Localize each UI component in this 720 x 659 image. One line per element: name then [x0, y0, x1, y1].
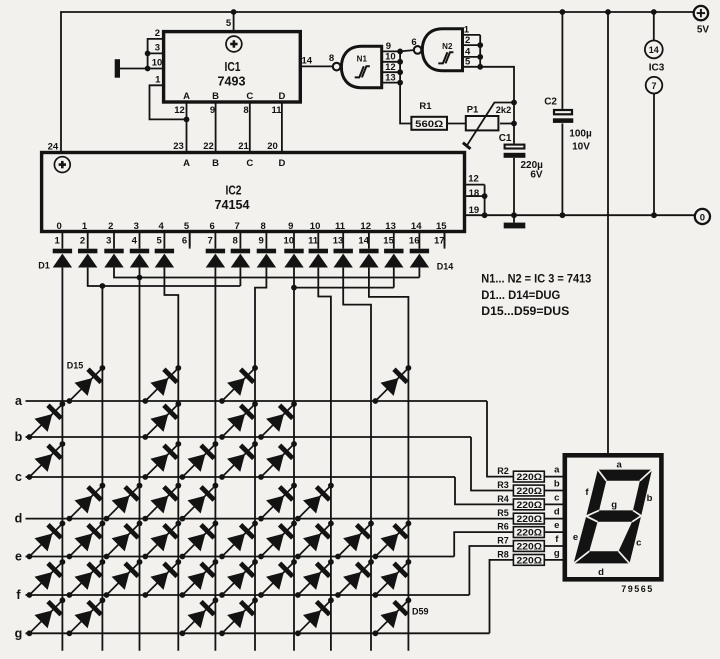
diode D24 row c column 4	[137, 435, 187, 485]
svg-text:N1: N1	[357, 54, 368, 63]
svg-text:d: d	[15, 512, 23, 526]
svg-text:12: 12	[468, 174, 479, 185]
svg-text:3: 3	[134, 221, 139, 232]
svg-text:D: D	[278, 91, 285, 102]
svg-text:e: e	[573, 532, 578, 543]
svg-text:IC3: IC3	[649, 62, 665, 73]
svg-text:8: 8	[329, 53, 334, 64]
node rail A to column 3	[137, 275, 143, 281]
IC2 74154 decoder	[42, 153, 465, 232]
svg-text:11: 11	[271, 105, 282, 116]
svg-text:d: d	[554, 507, 560, 518]
wire output 10 jog to column 8	[318, 268, 331, 651]
svg-text:R4: R4	[497, 494, 509, 504]
svg-text:8: 8	[233, 235, 238, 246]
diode D22 row b column 7	[252, 395, 302, 445]
svg-text:19: 19	[469, 205, 480, 216]
diode D19 row b column 1	[21, 395, 71, 445]
diode D52 row f column 9	[329, 553, 379, 603]
svg-text:3: 3	[106, 235, 111, 246]
svg-text:15: 15	[436, 221, 447, 232]
diode D58 row g column 8	[289, 592, 339, 642]
wire output 7 down to rail	[239, 268, 241, 286]
svg-text:R1: R1	[419, 101, 432, 112]
svg-text:11: 11	[335, 221, 346, 232]
svg-text:2: 2	[108, 221, 113, 232]
svg-text:b: b	[15, 430, 23, 444]
wire R1 to P1	[447, 123, 466, 125]
svg-text:220Ω: 220Ω	[517, 556, 543, 567]
svg-text:D14: D14	[437, 261, 454, 271]
wire row a	[26, 400, 488, 402]
svg-text:220Ω: 220Ω	[517, 528, 543, 539]
segment separator gaps	[574, 470, 652, 564]
diode D7 on output 7	[231, 249, 250, 268]
diode D56 row g column 5	[174, 592, 224, 642]
resistor R3 220 ohm segment b	[513, 485, 544, 497]
wire P1 to C1 node	[500, 123, 514, 125]
wire IC3 pin 7 to 0V line	[653, 94, 655, 216]
svg-text:R3: R3	[497, 480, 509, 490]
diode D5 on output 4	[155, 249, 174, 268]
svg-text:5: 5	[157, 235, 163, 246]
node IC3 to 0V	[651, 212, 657, 218]
svg-text:79565: 79565	[621, 584, 654, 594]
svg-text:D15: D15	[67, 361, 84, 371]
svg-text:C1: C1	[499, 133, 512, 144]
diode D2 on output 1	[78, 249, 97, 268]
diode D18 row a column 10	[367, 359, 417, 409]
diode D28 row d column 2	[61, 477, 111, 527]
N2 output bubble pin 6	[414, 46, 422, 54]
wire output 6 to column 5	[214, 268, 216, 651]
svg-text:6: 6	[182, 235, 187, 246]
diode D48 row f column 5	[174, 553, 224, 603]
svg-text:6: 6	[411, 37, 416, 48]
svg-text:e: e	[15, 550, 22, 564]
node pin10 junction	[145, 66, 151, 72]
wire output 4 jog to column 4	[164, 268, 178, 651]
diode D6 on output 6	[206, 249, 225, 268]
svg-text:6: 6	[210, 221, 215, 232]
svg-text:220Ω: 220Ω	[517, 472, 543, 483]
svg-text:0: 0	[700, 212, 705, 223]
diode D25 row c column 5	[174, 435, 224, 485]
node P1 wiper junction	[511, 100, 517, 106]
svg-text:a: a	[554, 465, 560, 476]
IC2 output 15 stub (unused)	[444, 232, 446, 247]
IC2 pin 19 stub to 0V	[465, 214, 485, 216]
wire linking N2 inputs	[479, 35, 481, 67]
svg-text:5V: 5V	[697, 25, 710, 36]
svg-text:4: 4	[132, 235, 138, 246]
svg-text:12: 12	[360, 221, 371, 232]
svg-text:7493: 7493	[218, 74, 246, 89]
wire row a to resistor	[487, 401, 513, 477]
svg-text:2: 2	[465, 35, 470, 46]
svg-text:R7: R7	[497, 535, 509, 545]
svg-text:B: B	[212, 91, 219, 102]
diode D21 row b column 6	[213, 395, 263, 445]
node pin1 to A junction	[184, 117, 190, 123]
svg-text:12: 12	[385, 62, 396, 73]
diode D47 row f column 4	[137, 553, 187, 603]
svg-text:2: 2	[155, 28, 160, 39]
wire rail down-left to IC2 pin 24	[60, 11, 62, 152]
diode D30 row d column 4	[137, 477, 187, 527]
svg-text:14: 14	[411, 221, 422, 232]
diode D12 on output 12	[359, 249, 378, 268]
op N1 NAND Schmitt gate	[341, 46, 381, 87]
wire output 2 jog to rail A	[114, 268, 419, 278]
svg-text:0: 0	[57, 221, 62, 232]
svg-text:a: a	[15, 394, 23, 408]
wire output 14 down to rail A	[418, 268, 420, 278]
diode D44 row f column 1	[21, 553, 71, 603]
svg-text:100µ: 100µ	[569, 128, 592, 139]
wire row b	[26, 436, 472, 438]
svg-text:10: 10	[385, 52, 396, 63]
svg-text:10V: 10V	[572, 141, 590, 152]
svg-text:1: 1	[55, 235, 61, 246]
svg-text:IC2: IC2	[226, 183, 242, 198]
display 7-segment 79565	[565, 455, 662, 579]
diode D45 row f column 2	[61, 553, 111, 603]
svg-text:c: c	[636, 537, 641, 548]
diode D34 row e column 1	[21, 515, 71, 565]
node rail to IC1 pin 5	[231, 9, 237, 15]
svg-text:220Ω: 220Ω	[517, 500, 543, 511]
svg-text:14: 14	[649, 45, 659, 55]
node pin3 junction	[145, 51, 151, 57]
node rail to display	[605, 9, 611, 15]
diode D46 row f column 3	[98, 553, 148, 603]
svg-text:7: 7	[651, 81, 656, 91]
svg-text:IC1: IC1	[225, 59, 241, 74]
terminal +5V	[694, 6, 708, 20]
svg-text:c: c	[15, 470, 22, 484]
wire +5V top supply rail	[61, 11, 693, 13]
diode D23 row c column 1	[21, 435, 71, 485]
wire C1 node to ground bar	[513, 215, 515, 222]
svg-text:2k2: 2k2	[496, 105, 512, 116]
svg-text:D1: D1	[38, 260, 50, 270]
wire row g to resistor	[490, 560, 514, 633]
diode D55 row g column 2	[61, 592, 111, 642]
svg-text:21: 21	[238, 141, 249, 152]
svg-text:9: 9	[288, 221, 293, 232]
svg-text:R2: R2	[497, 466, 509, 476]
diode D38 row e column 5	[174, 515, 224, 565]
svg-text:10: 10	[310, 221, 321, 232]
svg-text:5: 5	[465, 57, 471, 68]
wire R2 to display segment a	[544, 476, 562, 478]
node C1 ground junction	[511, 212, 517, 218]
svg-text:b: b	[554, 479, 560, 490]
wire row e to resistor	[454, 532, 513, 556]
svg-text:c: c	[554, 493, 559, 504]
wire output 3 to column 3	[139, 268, 141, 651]
diode D50 row f column 7	[252, 553, 302, 603]
svg-text:220Ω: 220Ω	[517, 514, 543, 525]
node column 7 rail to output 13	[291, 285, 297, 291]
svg-text:C2: C2	[544, 97, 557, 108]
diode D27 row c column 7	[252, 435, 302, 485]
wire output 0 to column 1	[61, 268, 63, 651]
wire rail down to C2	[561, 12, 563, 109]
svg-text:5: 5	[226, 18, 232, 29]
diode D41 row e column 8	[289, 515, 339, 565]
svg-text:B: B	[212, 158, 219, 169]
capacitor C1 220u 6V	[504, 145, 526, 158]
svg-text:A: A	[183, 91, 190, 102]
wire row g	[26, 632, 490, 634]
svg-text:2: 2	[80, 235, 85, 246]
diode D3 on output 2	[104, 249, 123, 268]
node rail to C2	[560, 9, 566, 15]
svg-text:9: 9	[259, 235, 264, 246]
node P1 C1 junction	[511, 121, 517, 127]
diode D29 row d column 3	[98, 477, 148, 527]
svg-text:a: a	[617, 460, 623, 471]
svg-text:D15...D59=DUS: D15...D59=DUS	[481, 304, 569, 318]
terminal 0V	[695, 209, 710, 224]
wire N2 inputs to C1 node	[480, 67, 514, 124]
diode D42 row e column 9	[329, 515, 379, 565]
svg-text:g: g	[611, 500, 617, 511]
resistor R7 220 ohm segment f	[513, 541, 544, 553]
wire row f	[26, 594, 470, 596]
svg-text:560Ω: 560Ω	[415, 119, 443, 130]
svg-text:8: 8	[243, 105, 248, 116]
diode D35 row e column 2	[61, 515, 111, 565]
IC2 enable pin 18 stub	[465, 195, 485, 197]
IC1 pin 14 wire to N1 output	[300, 65, 332, 67]
diode D53 row f column 10	[367, 553, 417, 603]
svg-text:C: C	[246, 158, 253, 169]
diode D40 row e column 7	[252, 515, 302, 565]
svg-text:13: 13	[385, 72, 396, 83]
diode D31 row d column 5	[174, 477, 224, 527]
wire row c to resistor	[455, 477, 513, 504]
diode D49 row f column 6	[213, 553, 263, 603]
wire output 8 jog to column 6	[255, 268, 266, 651]
svg-text:A: A	[183, 158, 190, 169]
IC3 ground pin 7 circle	[646, 77, 663, 94]
diode D16 row a column 4	[137, 359, 187, 409]
svg-text:220Ω: 220Ω	[517, 542, 543, 553]
IC1 pin 2 stub	[148, 38, 164, 40]
svg-text:e: e	[554, 520, 559, 531]
svg-text:220Ω: 220Ω	[517, 486, 543, 497]
svg-text:10: 10	[284, 235, 295, 246]
diode D17 row a column 6	[213, 359, 263, 409]
diode D20 row b column 4	[137, 395, 187, 445]
wire row c	[26, 476, 456, 478]
svg-text:R8: R8	[497, 549, 509, 559]
svg-text:d: d	[598, 567, 604, 578]
diode D11 on output 11	[334, 249, 353, 268]
IC1 pin 3 stub	[148, 52, 164, 54]
wire IC1 pin 5 to rail	[233, 12, 235, 32]
op N2 NAND Schmitt gate	[422, 29, 462, 71]
potentiometer P1 2k2	[463, 103, 514, 149]
diode D1 on output 0	[53, 249, 72, 268]
wire R6 to display segment e	[544, 531, 562, 533]
diode D59 row g column 10	[367, 592, 417, 642]
resistor R1 560 ohm	[411, 117, 447, 130]
wire R5 to display segment d	[544, 518, 562, 520]
svg-text:17: 17	[434, 235, 445, 246]
wire C2 to 0V line	[561, 123, 563, 215]
IC1 7493 counter	[164, 32, 301, 102]
diode D8 on output 8	[257, 249, 276, 268]
wire 0V line	[485, 214, 695, 216]
N1 input stubs pins 9,10,12,13	[382, 50, 400, 52]
svg-text:N2: N2	[442, 42, 453, 51]
svg-text:R5: R5	[497, 508, 509, 518]
IC3 supply pin 14 circle	[653, 12, 655, 41]
svg-text:20: 20	[267, 141, 278, 152]
wire output 12 jog to column 10	[369, 268, 409, 651]
svg-text:18: 18	[469, 188, 480, 199]
IC2 output 5 stub (unused)	[189, 232, 191, 247]
svg-text:24: 24	[48, 142, 59, 153]
svg-text:14: 14	[302, 56, 313, 67]
wire output 11 jog to column 9	[343, 268, 371, 651]
diode D37 row e column 4	[137, 515, 187, 565]
diode D57 row g column 6	[213, 592, 263, 642]
wire output 1 jog to column 2 rail	[88, 268, 241, 286]
wire R8 to display segment g	[544, 559, 562, 561]
wire output 13 down to rail	[393, 268, 395, 288]
svg-text:16: 16	[409, 235, 420, 246]
wire rail down to display anode	[607, 12, 609, 455]
wire row d to R5	[26, 518, 514, 520]
wire row b to resistor	[471, 437, 513, 491]
svg-text:N1... N2 = IC 3 = 7413: N1... N2 = IC 3 = 7413	[481, 272, 591, 286]
svg-text:23: 23	[173, 141, 184, 152]
diode D39 row e column 6	[213, 515, 263, 565]
digit 8 segments body	[574, 470, 652, 564]
svg-text:5: 5	[184, 221, 190, 232]
resistor R8 220 ohm segment g	[513, 555, 544, 567]
wire output 9 to column 7	[293, 268, 295, 651]
wire linking pins 12,18,19	[484, 185, 486, 216]
diode D13 on output 13	[384, 249, 403, 268]
ground bar	[504, 223, 526, 229]
svg-text:9: 9	[386, 41, 391, 52]
svg-text:P1: P1	[467, 104, 479, 115]
IC1 pin 10 stub	[148, 68, 164, 70]
resistor R5 220 ohm segment d	[513, 513, 544, 525]
wire node down to C1	[513, 124, 515, 144]
wire clock input to pin 10	[120, 68, 148, 70]
svg-text:12: 12	[174, 105, 185, 116]
diode D10 on output 10	[309, 249, 328, 268]
node column 2 tap	[100, 283, 106, 289]
IC1 pin 1 wire to output A	[150, 85, 187, 119]
wire column 2	[101, 286, 103, 651]
wire C1 to 0V line	[513, 158, 515, 215]
svg-text:13: 13	[385, 221, 396, 232]
IC2 enable pin 12 stub	[465, 184, 485, 186]
svg-text:22: 22	[203, 141, 214, 152]
capacitor C2 100u 10V	[553, 110, 573, 123]
wire row f to resistor	[469, 546, 513, 595]
diode D9 on output 9	[284, 249, 303, 268]
diode D36 row e column 3	[98, 515, 148, 565]
svg-text:b: b	[647, 493, 653, 504]
svg-text:6V: 6V	[530, 170, 543, 181]
N2 input stubs pins 1,2,4,5	[463, 34, 481, 36]
wire N2 output to N1 inputs	[400, 50, 414, 51]
svg-text:D: D	[278, 158, 285, 169]
wire N1 inputs down to R1	[400, 83, 411, 124]
diode D15 row a column 2	[61, 359, 111, 409]
node rail to IC3 pin 14	[651, 9, 657, 15]
diode D51 row f column 8	[289, 553, 339, 603]
resistor R6 220 ohm segment e	[513, 527, 544, 539]
svg-text:g: g	[554, 548, 560, 559]
svg-text:3: 3	[155, 43, 160, 54]
svg-text:D59: D59	[412, 606, 429, 616]
svg-text:D1... D14=DUG: D1... D14=DUG	[481, 288, 560, 302]
svg-text:1: 1	[82, 221, 88, 232]
wire linking N1 inputs	[399, 51, 401, 82]
wire row e	[26, 556, 455, 558]
svg-text:1: 1	[155, 75, 161, 86]
svg-text:4: 4	[159, 221, 165, 232]
svg-text:74154: 74154	[215, 197, 251, 212]
diode D4 on output 3	[130, 249, 149, 268]
wire linking pins 2,3,10	[147, 38, 149, 68]
svg-text:g: g	[15, 626, 23, 640]
svg-text:13: 13	[333, 235, 344, 246]
node C2 to 0V	[560, 212, 566, 218]
N1 output bubble pin 8	[333, 63, 341, 71]
wire rail output 9 to output 13	[294, 287, 394, 289]
diode D26 row c column 6	[213, 435, 263, 485]
svg-text:9: 9	[210, 105, 215, 116]
diode D32 row d column 7	[252, 477, 302, 527]
svg-text:7: 7	[208, 235, 213, 246]
svg-text:R6: R6	[497, 522, 509, 532]
svg-text:7: 7	[235, 221, 240, 232]
wire R7 to display segment f	[544, 545, 562, 547]
input terminal bar	[115, 59, 120, 77]
diode D33 row d column 8	[289, 477, 339, 527]
resistor R2 220 ohm segment a	[513, 471, 544, 483]
svg-text:8: 8	[261, 221, 266, 232]
svg-text:C: C	[246, 91, 253, 102]
svg-text:10: 10	[152, 58, 163, 69]
resistor R4 220 ohm segment c	[513, 499, 544, 511]
svg-text:11: 11	[308, 235, 319, 246]
wire R3 to display segment b	[544, 490, 562, 492]
diode D43 row e column 10	[367, 515, 417, 565]
wire R4 to display segment c	[544, 503, 562, 505]
diode D14 on output 14	[410, 249, 429, 268]
diode D54 row g column 1	[21, 592, 71, 642]
